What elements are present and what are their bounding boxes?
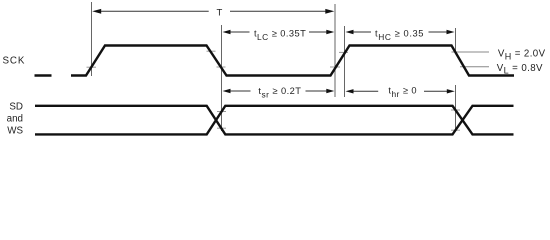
svg-text:WS: WS [7,126,23,137]
svg-text:thr ≥ 0: thr ≥ 0 [388,86,417,99]
svg-text:VH = 2.0V: VH = 2.0V [498,49,546,62]
svg-text:T: T [216,8,222,19]
svg-text:and: and [7,114,23,125]
svg-text:tLC ≥ 0.35T: tLC ≥ 0.35T [254,29,306,42]
svg-text:tsr ≥ 0.2T: tsr ≥ 0.2T [258,86,301,99]
svg-text:VL = 0.8V: VL = 0.8V [497,63,543,76]
svg-text:tHC ≥ 0.35: tHC ≥ 0.35 [375,29,424,42]
svg-text:SCK: SCK [3,56,26,67]
svg-text:SD: SD [9,102,23,113]
